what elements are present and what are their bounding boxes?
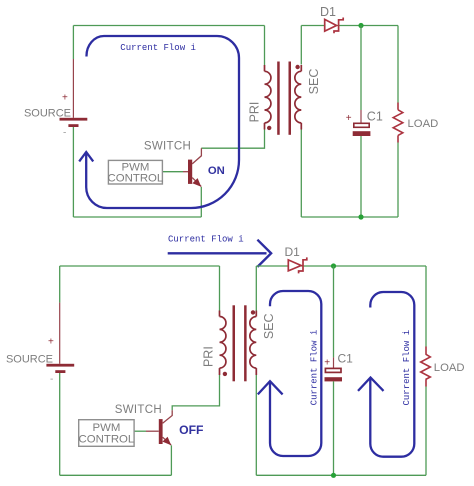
svg-text:SWITCH: SWITCH — [144, 141, 191, 153]
svg-text:LOAD: LOAD — [434, 362, 465, 374]
svg-text:CONTROL: CONTROL — [108, 172, 164, 184]
svg-text:SOURCE: SOURCE — [24, 107, 71, 119]
wire: battery + lead red (bottom) — [59, 303, 61, 364]
transformer T2 primary winding PRI — [220, 311, 226, 376]
transistor Q2 (switch, bottom circuit) — [146, 410, 172, 445]
wire: right rail lower — [397, 143, 399, 218]
svg-text:OFF: OFF — [179, 423, 203, 437]
wire: top rail primary (battery+ to PRI top) — [73, 25, 264, 27]
svg-text:ON: ON — [208, 165, 225, 177]
wire: C1 branch upper (bottom) — [333, 266, 335, 357]
junction node (bottom circuit, bottom) — [331, 473, 336, 478]
wire: base wire from PWM box — [162, 171, 183, 173]
svg-text:D1: D1 — [320, 5, 336, 19]
wire: emitter lead up (bottom) — [170, 445, 172, 475]
svg-text:+: + — [324, 358, 330, 369]
svg-text:D1: D1 — [285, 245, 301, 259]
wire: right rail upper (bottom circuit) — [425, 266, 427, 347]
diode D1 (top circuit) — [325, 18, 344, 34]
arrowhead of left loop — [258, 381, 283, 394]
wire: diode to junction to right rail (bottom) — [301, 265, 426, 267]
current flow loop right (bottom circuit) — [370, 292, 414, 457]
wire: left rail upper green (bottom) — [59, 266, 61, 303]
junction node (bottom circuit, top) — [331, 263, 336, 268]
battery SOURCE (bottom circuit) — [46, 364, 74, 373]
wire: right rail upper (to LOAD) — [397, 26, 399, 103]
wire: PRI bottom lead to collector node — [201, 130, 264, 149]
wire: sec top rail to diode — [301, 25, 324, 27]
current flow loop (top circuit, blue) — [86, 36, 239, 208]
wire: battery + lead (red) — [72, 59, 74, 118]
wire: bottom rail primary — [73, 216, 201, 218]
svg-text:PWM: PWM — [92, 422, 120, 434]
wire: PRI bottom lead to collector node (bottom) — [172, 375, 219, 410]
wire: PRI top lead — [264, 26, 266, 66]
transformer T2 secondary winding SEC — [250, 311, 256, 376]
transistor Q1 (switch, top circuit) — [183, 148, 201, 187]
wire: sec top rail to diode (bottom) — [256, 265, 288, 267]
arrowhead of top loop — [79, 152, 93, 161]
svg-text:LOAD: LOAD — [408, 118, 439, 130]
wire: C1 bottom lead — [360, 136, 362, 217]
svg-text:Current Flow i: Current Flow i — [309, 330, 319, 406]
phase dot primary (bottom circuit) — [223, 372, 227, 376]
svg-text:-: - — [50, 374, 53, 385]
svg-text:-: - — [63, 128, 66, 139]
current flow arrow (middle) — [168, 240, 271, 267]
transformer T1 core — [277, 62, 291, 135]
wire: SEC top lead — [300, 26, 302, 65]
svg-text:SOURCE: SOURCE — [6, 353, 53, 365]
PWM CONTROL box (top) — [108, 160, 164, 184]
diode D1 (bottom circuit) — [288, 257, 307, 273]
phase dot secondary (bottom circuit) — [251, 310, 255, 314]
wire: SEC bottom lead (bottom circuit) — [255, 375, 257, 475]
wire: SEC top lead (bottom circuit) — [255, 266, 257, 311]
wire: SEC bottom lead down — [300, 130, 302, 218]
wire: PRI top lead (bottom circuit) — [219, 266, 221, 311]
phase dot primary (top circuit) — [267, 126, 271, 130]
PWM CONTROL box (bottom) — [79, 420, 135, 447]
svg-text:+: + — [346, 113, 352, 124]
wire: top rail primary (bottom circuit) — [60, 265, 220, 267]
phase dot secondary (top circuit) — [295, 65, 299, 69]
wire: left rail upper green — [72, 26, 74, 60]
wire: bottom rail secondary (top circuit) — [301, 216, 398, 218]
svg-text:PRI: PRI — [247, 102, 261, 123]
capacitor C1 (bottom circuit) — [325, 368, 343, 381]
svg-text:Current Flow i: Current Flow i — [402, 330, 412, 406]
wire: battery - lead down (bottom) — [59, 373, 61, 475]
transformer T1 primary winding PRI — [265, 65, 271, 130]
wire: emitter lead up — [200, 187, 202, 217]
arrowhead of right loop — [358, 378, 384, 391]
capacitor C1 (top circuit) — [353, 123, 371, 136]
wire: C1 bottom lead (bottom) — [333, 381, 335, 475]
svg-text:SEC: SEC — [307, 69, 321, 95]
wire: battery - lead down — [72, 127, 74, 217]
transformer T2 core — [233, 305, 247, 381]
resistor LOAD (top circuit) — [393, 103, 403, 143]
wire: C1 red lead (bottom) — [333, 357, 335, 368]
current flow loop left (bottom circuit) — [270, 291, 321, 456]
transformer T1 secondary winding SEC — [295, 65, 301, 130]
svg-text:+: + — [48, 337, 54, 348]
wire: right rail lower (bottom circuit) — [425, 387, 427, 476]
junction node (top circuit, top) — [358, 23, 363, 28]
svg-text:C1: C1 — [338, 352, 354, 366]
svg-text:Current Flow i: Current Flow i — [120, 43, 196, 53]
resistor LOAD (bottom circuit) — [421, 347, 431, 387]
wire: bottom rail secondary (bottom circuit) — [256, 474, 426, 476]
wire: base wire from PWM box (bottom) — [134, 430, 146, 432]
svg-text:Current Flow i: Current Flow i — [168, 235, 244, 245]
svg-text:CONTROL: CONTROL — [79, 434, 135, 446]
svg-text:+: + — [62, 93, 68, 104]
wire: bottom rail primary (bottom circuit) — [60, 474, 172, 476]
wire: C1 red lead — [360, 110, 362, 123]
svg-text:SEC: SEC — [262, 313, 276, 339]
svg-text:C1: C1 — [367, 109, 383, 123]
battery SOURCE (top circuit) — [60, 118, 88, 127]
wire: diode to junction to corner — [337, 25, 399, 27]
svg-text:PRI: PRI — [201, 346, 215, 367]
junction node (top circuit, bottom) — [358, 214, 363, 219]
wire: C1 branch upper — [360, 26, 362, 111]
svg-text:SWITCH: SWITCH — [115, 404, 162, 416]
